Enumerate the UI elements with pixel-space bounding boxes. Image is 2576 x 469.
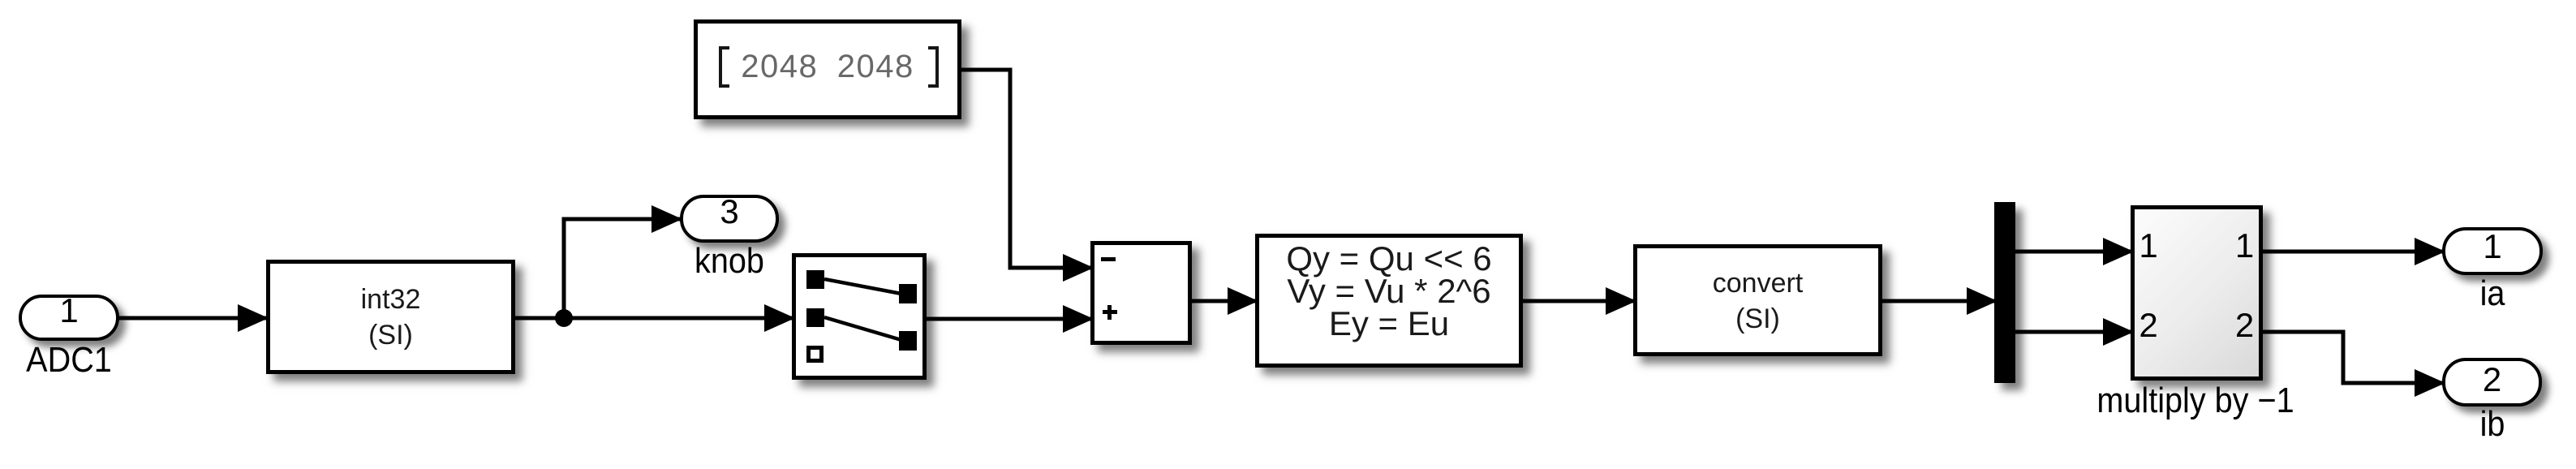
selector icon square mid-left bbox=[806, 308, 824, 327]
outport knob number 3 bbox=[680, 196, 779, 228]
selector icon square bottom-left hollow bbox=[806, 346, 824, 363]
wire Qy block to convert bbox=[1523, 287, 1636, 315]
demux bar bbox=[1994, 202, 2015, 383]
selector icon connecting lines bbox=[796, 257, 922, 376]
outport ib number 2 bbox=[2442, 364, 2542, 396]
constant right bracket bbox=[928, 46, 939, 88]
wire subsystem output 2 to ib bbox=[2263, 332, 2445, 397]
wire branch junction to knob bbox=[564, 205, 682, 318]
wire selector to sum plus input bbox=[927, 305, 1094, 333]
outport ib label bbox=[2383, 407, 2576, 441]
wire ADC1 to int32 bbox=[118, 304, 269, 332]
subsystem port 2 out label bbox=[2229, 309, 2261, 342]
wire sum to Qy block bbox=[1192, 287, 1258, 315]
subsystem port 2 in label bbox=[2132, 309, 2165, 342]
junction dot bbox=[555, 309, 573, 327]
inport ADC1 number 1 bbox=[19, 295, 119, 327]
sum plus sign vertical bbox=[1107, 305, 1112, 320]
constant [2048 2048] bbox=[694, 19, 961, 119]
wire demux to subsystem input 2 bbox=[2015, 318, 2134, 346]
outport ia label bbox=[2383, 277, 2576, 311]
selector block bbox=[792, 253, 927, 380]
inport ADC1 bbox=[19, 295, 119, 341]
selector icon square top-left bbox=[806, 270, 824, 289]
wire demux to subsystem input 1 bbox=[2015, 238, 2134, 265]
block convert (SI) bbox=[1633, 244, 1882, 356]
block Qy shift arithmetic bbox=[1255, 234, 1523, 368]
sum minus sign bbox=[1101, 257, 1116, 261]
outport knob bbox=[680, 195, 779, 243]
wire subsystem output 1 to ia bbox=[2263, 238, 2445, 265]
outport ib bbox=[2442, 358, 2542, 407]
wire constant to sum minus input bbox=[961, 70, 1094, 282]
constant left bracket bbox=[719, 46, 729, 88]
selector icon square top-right bbox=[899, 284, 917, 303]
inport ADC1 label bbox=[0, 343, 178, 377]
sum plus sign horizontal bbox=[1103, 310, 1118, 314]
wire int32 to selector bbox=[515, 304, 795, 332]
constant value text bbox=[698, 50, 957, 83]
subsystem port 1 out label bbox=[2229, 230, 2261, 262]
wire convert to demux bbox=[1882, 287, 1998, 315]
outport ia number 1 bbox=[2442, 230, 2543, 263]
sum block bbox=[1090, 241, 1192, 345]
subsystem label multiply by -1 bbox=[2013, 384, 2378, 418]
outport knob label bbox=[620, 244, 839, 278]
subsystem port 1 in label bbox=[2132, 230, 2165, 262]
block Qy text bbox=[1255, 243, 1523, 340]
selector icon square bottom-right bbox=[899, 331, 917, 351]
block convert text bbox=[1633, 265, 1882, 337]
block int32 text bbox=[266, 282, 515, 353]
block int32 (SI) bbox=[266, 260, 515, 374]
outport ia bbox=[2442, 227, 2543, 275]
subsystem multiply by -1 bbox=[2131, 205, 2263, 381]
